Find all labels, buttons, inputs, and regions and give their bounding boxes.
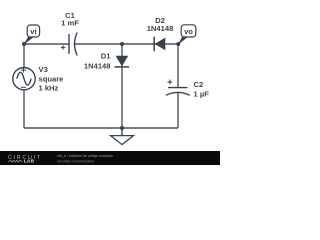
capacitor C1 [69, 33, 77, 56]
wire D1 branch vertical [121, 44, 123, 128]
source V3 [13, 68, 35, 90]
wire right upper (vo node to C2) [177, 44, 179, 87]
node vo junction dot [176, 42, 180, 46]
svg-text:vi: vi [30, 27, 36, 36]
node vi junction dot [22, 42, 26, 46]
svg-text:circuitlab.com/c/b6zafcm: circuitlab.com/c/b6zafcm [57, 159, 94, 163]
svg-text:square: square [39, 74, 64, 83]
svg-text:1N4148: 1N4148 [84, 61, 111, 70]
svg-text:vo: vo [184, 27, 193, 36]
capacitor C2 [166, 88, 190, 96]
svg-text:D1: D1 [101, 52, 111, 61]
svg-text:C2: C2 [194, 80, 204, 89]
V3 plus sign [21, 68, 26, 73]
wire top-right (C1 to vo node) [75, 43, 179, 45]
C2 plus sign [168, 80, 173, 85]
svg-text:1 µF: 1 µF [194, 89, 210, 98]
svg-text:1 kHz: 1 kHz [39, 83, 59, 92]
C1 plus sign [61, 45, 65, 49]
svg-text:1 mF: 1 mF [61, 19, 79, 28]
wire right lower (C2 to corner) [177, 92, 179, 128]
svg-text:1N4148: 1N4148 [147, 24, 174, 33]
diode D1 [115, 56, 130, 67]
svg-text:LAB: LAB [24, 159, 35, 165]
wire bottom [24, 127, 178, 129]
node vo flag [178, 25, 196, 45]
footer CircuitLab logo [8, 155, 42, 164]
svg-text:V3: V3 [39, 65, 48, 74]
ground junction dot [120, 126, 124, 130]
diode D2 [154, 37, 165, 52]
node vi flag [23, 25, 39, 45]
wire left upper (vi node to V3 top) [23, 44, 25, 68]
wire top-left (vi node to C1) [24, 43, 69, 45]
svg-text:sch_b / doblador de voltaje cu: sch_b / doblador de voltaje cuadrada [57, 154, 113, 158]
wire left lower (V3 bottom to corner) [23, 90, 25, 128]
V3 minus sign [21, 86, 26, 88]
footer bar [0, 151, 220, 165]
ground [111, 128, 134, 145]
node A junction dot (D1 top) [120, 42, 124, 46]
